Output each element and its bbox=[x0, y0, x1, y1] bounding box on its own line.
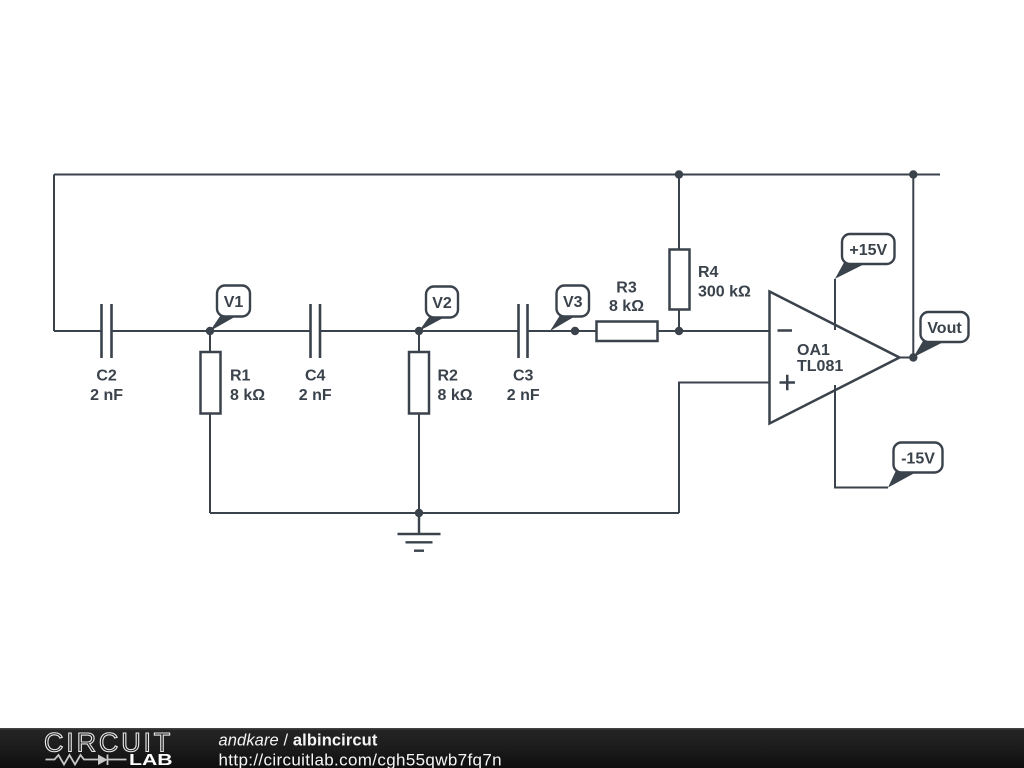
node V3 junction dot bbox=[571, 327, 579, 335]
wire main horizontal segment 1 bbox=[54, 330, 102, 332]
wire main horizontal segment 2 bbox=[112, 330, 311, 332]
op-amp OA1 label bbox=[797, 342, 843, 375]
node R4 top junction dot bbox=[675, 170, 683, 178]
svg-text:andkare / albincircut: andkare / albincircut bbox=[219, 732, 378, 750]
node output junction dot bbox=[909, 353, 917, 361]
svg-text:V1: V1 bbox=[224, 294, 244, 311]
svg-text:8 kΩ: 8 kΩ bbox=[230, 387, 265, 404]
footer bar bbox=[0, 728, 1024, 768]
resistor R4 label bbox=[698, 264, 751, 301]
capacitor C2 bbox=[102, 304, 112, 358]
wire negative supply pin bbox=[835, 385, 888, 488]
svg-text:C4: C4 bbox=[305, 368, 326, 385]
op-amp plus sign bbox=[780, 375, 796, 391]
svg-text:8 kΩ: 8 kΩ bbox=[609, 298, 644, 315]
net Vout flag bbox=[913, 312, 968, 357]
svg-text:R1: R1 bbox=[230, 368, 251, 385]
capacitor C4 bbox=[311, 304, 321, 358]
svg-text:C2: C2 bbox=[96, 368, 117, 385]
footer url line bbox=[219, 751, 502, 768]
node V2 junction dot bbox=[415, 327, 423, 335]
resistor R4 bbox=[670, 250, 690, 310]
node V1 flag bbox=[210, 286, 250, 332]
svg-text:R4: R4 bbox=[698, 264, 719, 281]
svg-text:-15V: -15V bbox=[901, 451, 935, 468]
footer author line bbox=[219, 732, 378, 750]
wire left vertical bbox=[53, 175, 55, 332]
capacitor C4 label bbox=[299, 368, 332, 405]
wire main horizontal segment 4 bbox=[528, 330, 770, 332]
capacitor C2 label bbox=[90, 368, 123, 405]
svg-text:V3: V3 bbox=[563, 294, 583, 311]
node V1 junction dot bbox=[206, 327, 214, 335]
node V2 flag bbox=[419, 287, 458, 332]
svg-text:V2: V2 bbox=[432, 295, 452, 312]
CircuitLab logo LAB text bbox=[129, 751, 173, 768]
net -15V flag bbox=[888, 443, 943, 488]
capacitor C3 label bbox=[507, 368, 540, 405]
resistor R2 bbox=[409, 352, 429, 414]
svg-text:C3: C3 bbox=[513, 368, 534, 385]
node V3 flag bbox=[550, 286, 589, 332]
node ground junction dot bbox=[415, 509, 423, 517]
wire R1 branch bbox=[209, 331, 211, 513]
net +15V flag bbox=[835, 234, 895, 279]
node feedback top right junction dot bbox=[909, 170, 917, 178]
svg-text:LAB: LAB bbox=[129, 751, 173, 768]
svg-text:2 nF: 2 nF bbox=[299, 387, 332, 404]
svg-text:2 nF: 2 nF bbox=[507, 387, 540, 404]
wire main horizontal segment 3 bbox=[320, 330, 519, 332]
svg-text:R2: R2 bbox=[438, 368, 459, 385]
wire output stub bbox=[900, 357, 914, 359]
resistor R1 bbox=[201, 352, 221, 414]
wire positive supply pin bbox=[834, 279, 836, 330]
CircuitLab logo resistor diode glyph bbox=[46, 755, 127, 766]
ground bbox=[398, 513, 441, 551]
svg-text:Vout: Vout bbox=[927, 320, 962, 337]
svg-text:OA1: OA1 bbox=[797, 342, 830, 359]
CircuitLab logo CIRCUIT text bbox=[44, 728, 173, 758]
capacitor C3 bbox=[519, 304, 528, 358]
svg-text:8 kΩ: 8 kΩ bbox=[438, 387, 473, 404]
svg-text:TL081: TL081 bbox=[797, 358, 843, 375]
wire top feedback bbox=[54, 174, 940, 176]
wire R4 branch bbox=[678, 175, 680, 332]
resistor R2 label bbox=[438, 368, 473, 405]
svg-text:300 kΩ: 300 kΩ bbox=[698, 284, 751, 301]
resistor R3 bbox=[597, 322, 658, 342]
op-amp OA1 body bbox=[770, 292, 900, 424]
svg-text:R3: R3 bbox=[616, 280, 637, 297]
node R4 bottom junction dot bbox=[675, 327, 683, 335]
svg-text:+15V: +15V bbox=[849, 242, 887, 259]
wire output feedback vertical bbox=[912, 175, 914, 358]
svg-text:2 nF: 2 nF bbox=[90, 387, 123, 404]
svg-text:http://circuitlab.com/cgh55qwb: http://circuitlab.com/cgh55qwb7fq7n bbox=[219, 751, 502, 768]
resistor R3 label bbox=[609, 280, 644, 316]
wire bottom horizontal bbox=[210, 512, 679, 514]
resistor R1 label bbox=[230, 368, 265, 405]
wire noninverting input bbox=[679, 383, 770, 514]
op-amp minus sign bbox=[778, 329, 793, 332]
wire R2 branch bbox=[418, 331, 420, 513]
